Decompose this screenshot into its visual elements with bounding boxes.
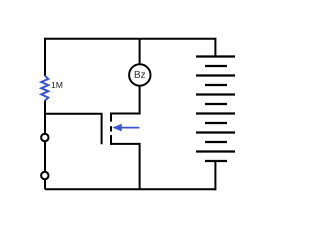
battery plate short 3 (205, 103, 227, 105)
wire buzzer stub bottom to drain (111, 85, 140, 113)
wire source to bottom rail (111, 144, 140, 189)
battery plate short 2 (205, 84, 227, 86)
node terminal post 2 (41, 172, 48, 179)
resistor value label 1M (52, 82, 62, 88)
battery plate long 2 (196, 74, 235, 76)
battery B1 plates (196, 57, 235, 162)
transistor Q1 channel source segment (110, 135, 112, 145)
battery plate long 3 (196, 93, 235, 95)
battery plate short 6 (205, 160, 227, 162)
wire buzzer stub top (139, 39, 141, 65)
battery plate short 4 (205, 122, 227, 124)
battery plate long 1 (196, 55, 235, 57)
wire right rail top (214, 38, 216, 57)
transistor Q1 channel body segment (110, 126, 112, 131)
battery plate long 4 (196, 112, 235, 114)
wire bottom rail (45, 188, 215, 190)
wire right rail bottom (214, 161, 216, 190)
transistor Q1 channel drain segment (110, 113, 112, 122)
battery plate long 6 (196, 150, 235, 152)
node terminal post 1 (41, 134, 48, 141)
wire gate from left rail (45, 114, 102, 144)
buzzer Bz circle (129, 64, 150, 85)
battery plate long 5 (196, 131, 235, 133)
resistor R1 1M zigzag (41, 76, 48, 101)
wire left rail upper (44, 38, 46, 76)
battery plate short 1 (205, 65, 227, 67)
transistor Q1 body arrow (blue) (112, 124, 139, 132)
wire between terminals (44, 142, 46, 172)
wire left rail mid (44, 100, 46, 133)
buzzer label Bz (135, 71, 145, 78)
wire left rail lower (44, 180, 46, 190)
wire top rail (45, 38, 215, 40)
battery plate short 5 (205, 141, 227, 143)
